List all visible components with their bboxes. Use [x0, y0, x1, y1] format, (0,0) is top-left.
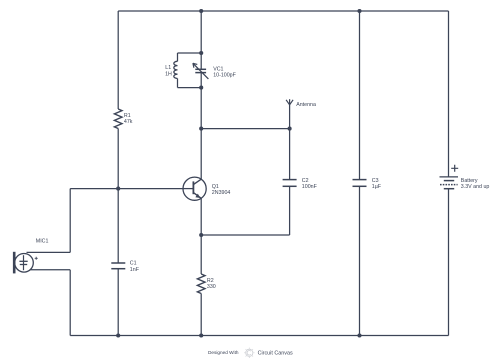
inductor L1 branch top wire [178, 52, 202, 54]
svg-text:L1: L1 [165, 65, 171, 71]
resistor R1 [114, 109, 122, 128]
svg-text:Circuit Canvas: Circuit Canvas [258, 350, 293, 356]
wire top rail [118, 10, 448, 12]
resistor R2 [197, 274, 205, 293]
wire mic top vertical [69, 189, 71, 253]
svg-text:10-100pF: 10-100pF [213, 73, 236, 79]
wire VC1 to tank bottom [200, 73, 202, 88]
svg-text:47k: 47k [124, 119, 133, 125]
node junction bottom C1 [116, 333, 120, 337]
wire C3 upper lead [359, 11, 361, 180]
capacitor C1 [111, 263, 125, 269]
svg-text:Designed With: Designed With [208, 350, 239, 355]
wire main vertical top (rail to tank) [200, 11, 202, 53]
wire C3 lower lead [359, 186, 361, 335]
node junction tank bottom [199, 86, 203, 90]
svg-text:1nF: 1nF [130, 267, 140, 273]
microphone MIC1 [14, 252, 38, 274]
wire battery lower lead [448, 189, 450, 336]
battery BT1 [440, 165, 459, 189]
wire R1 to base node [117, 129, 119, 189]
node junction antenna [288, 127, 292, 131]
svg-text:1µF: 1µF [372, 184, 382, 190]
wire left rail upper (to R1) [117, 11, 119, 109]
svg-text:R2: R2 [207, 278, 214, 284]
svg-text:1H: 1H [165, 71, 172, 77]
wire mic bottom horizontal [30, 269, 70, 271]
svg-text:R1: R1 [124, 113, 131, 119]
inductor L1 [174, 53, 178, 88]
wire base node to transistor base [70, 188, 183, 190]
transistor Q1 [183, 177, 206, 200]
capacitor C3 [353, 180, 367, 187]
wire antenna branch horizontal [201, 128, 289, 130]
svg-text:330: 330 [207, 284, 216, 290]
svg-text:VC1: VC1 [213, 66, 223, 72]
wire battery upper lead [448, 11, 450, 177]
wire bottom rail [70, 335, 448, 337]
wire antenna node to C2 [289, 129, 291, 180]
svg-text:C1: C1 [130, 261, 137, 267]
wire mic top horizontal [27, 251, 71, 253]
node junction top C3 [357, 9, 361, 13]
antenna symbol [286, 99, 293, 105]
footer logo [244, 348, 254, 358]
capacitor C2 [283, 180, 297, 187]
inductor L1 branch bottom wire [178, 87, 202, 89]
svg-text:C2: C2 [302, 178, 309, 184]
node junction collector-antenna [199, 127, 203, 131]
node junction bottom R2 [199, 333, 203, 337]
svg-text:2N3904: 2N3904 [212, 190, 231, 196]
wire C1 upper lead [117, 189, 119, 263]
node junction bottom C3 [357, 333, 361, 337]
node junction tank top [199, 51, 203, 55]
variable capacitor VC1 [193, 63, 209, 79]
svg-text:MIC1: MIC1 [36, 238, 49, 244]
wire emitter to C2 node [200, 198, 202, 235]
wire antenna vertical [289, 105, 291, 129]
node junction emitter-C2 [199, 233, 203, 237]
wire C2 bottom horizontal [201, 234, 289, 236]
wire tank top to VC1 [200, 53, 202, 69]
node junction top tank [199, 9, 203, 13]
wire mic bottom vertical [69, 270, 71, 336]
wire C2 node to R2 [200, 235, 202, 274]
svg-text:100nF: 100nF [302, 184, 318, 190]
svg-text:3.3V and up: 3.3V and up [461, 184, 490, 190]
svg-text:Q1: Q1 [212, 184, 219, 190]
wire C2 lower lead [289, 186, 291, 235]
wire R2 to bottom rail [200, 294, 202, 336]
wire C1 lower lead [117, 269, 119, 336]
node junction base [116, 187, 120, 191]
svg-text:C3: C3 [372, 178, 379, 184]
svg-text:Antenna: Antenna [296, 102, 316, 108]
wire tank bottom to collector [200, 88, 202, 180]
svg-text:Battery: Battery [461, 178, 478, 184]
